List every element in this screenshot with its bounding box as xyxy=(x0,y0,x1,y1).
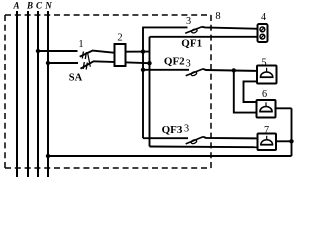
svg-text:QF2: QF2 xyxy=(164,56,185,68)
switch SA lower blade xyxy=(81,61,94,69)
socket 4 xyxy=(258,24,268,42)
svg-text:5: 5 xyxy=(261,58,266,69)
lamp 5 xyxy=(257,66,277,84)
svg-text:6: 6 xyxy=(262,89,267,100)
wire neutral bus to lamp7 lower terminal xyxy=(150,146,259,149)
node QF2 tap xyxy=(141,68,145,72)
wire drop to lamp6 lower terminal xyxy=(234,70,257,112)
phase line A xyxy=(16,11,18,177)
node N bottom tap xyxy=(46,154,50,158)
svg-text:3: 3 xyxy=(186,16,191,27)
phase bus (after fuse) xyxy=(142,27,144,138)
node N tap xyxy=(46,61,50,65)
wire neutral bus to socket bottom xyxy=(150,36,258,38)
neutral bus (after SA) xyxy=(149,37,151,147)
wire phase bus to QF1 xyxy=(142,26,187,28)
phase line B xyxy=(27,11,29,177)
svg-text:C: C xyxy=(36,1,43,11)
wire SA upper out to fuse xyxy=(93,51,116,53)
switch SA upper blade xyxy=(80,50,93,59)
node lamp7 riser junction xyxy=(289,139,293,143)
svg-text:8: 8 xyxy=(215,11,220,22)
svg-text:2: 2 xyxy=(117,33,122,44)
svg-text:QF1: QF1 xyxy=(181,38,202,50)
wire phase bus to QF3 xyxy=(143,137,188,139)
fuse 2 xyxy=(115,44,126,66)
phase line C xyxy=(37,11,39,177)
svg-text:4: 4 xyxy=(261,12,266,23)
wire lamp7 to right riser xyxy=(276,140,292,142)
svg-text:QF3: QF3 xyxy=(162,124,183,136)
svg-text:SA: SA xyxy=(69,73,83,84)
node neutral-bus junction xyxy=(147,61,151,65)
right neutral riser xyxy=(291,108,293,156)
wire SA lower out to neutral bus xyxy=(93,61,150,63)
wire lamp5 lower to lamp6 upper terminal xyxy=(244,81,258,102)
wire phase bus to QF2 xyxy=(143,69,189,71)
breaker QF2 blade xyxy=(186,69,203,76)
svg-text:3: 3 xyxy=(186,59,191,70)
lamp 7 xyxy=(258,134,277,151)
wire lamp6 to right riser xyxy=(275,107,292,109)
node fuse-bus junction xyxy=(141,49,145,53)
svg-text:3: 3 xyxy=(184,124,189,135)
breaker QF3 blade xyxy=(186,137,203,145)
SA linkage bar xyxy=(88,54,91,67)
neutral line N xyxy=(47,11,49,177)
wire fuse out to phase bus xyxy=(125,51,150,53)
wire C to SA upper pole xyxy=(38,50,78,52)
svg-text:7: 7 xyxy=(264,125,269,136)
breaker QF1 blade xyxy=(185,27,202,34)
svg-text:A: A xyxy=(12,1,19,11)
wire QF3 to lamp 7 xyxy=(203,137,258,139)
wire QF1 to socket top xyxy=(202,27,258,29)
wire N to SA lower pole xyxy=(48,62,78,64)
svg-text:N: N xyxy=(44,1,52,11)
dashed enclosure border xyxy=(5,15,211,168)
bottom neutral return wire xyxy=(48,155,292,157)
node lamp6 drop xyxy=(232,68,236,72)
wire QF2 to lamp 5 xyxy=(203,69,257,71)
svg-text:1: 1 xyxy=(78,39,83,50)
node C tap xyxy=(36,49,40,53)
lamp 6 xyxy=(257,100,276,118)
svg-text:B: B xyxy=(26,1,33,11)
